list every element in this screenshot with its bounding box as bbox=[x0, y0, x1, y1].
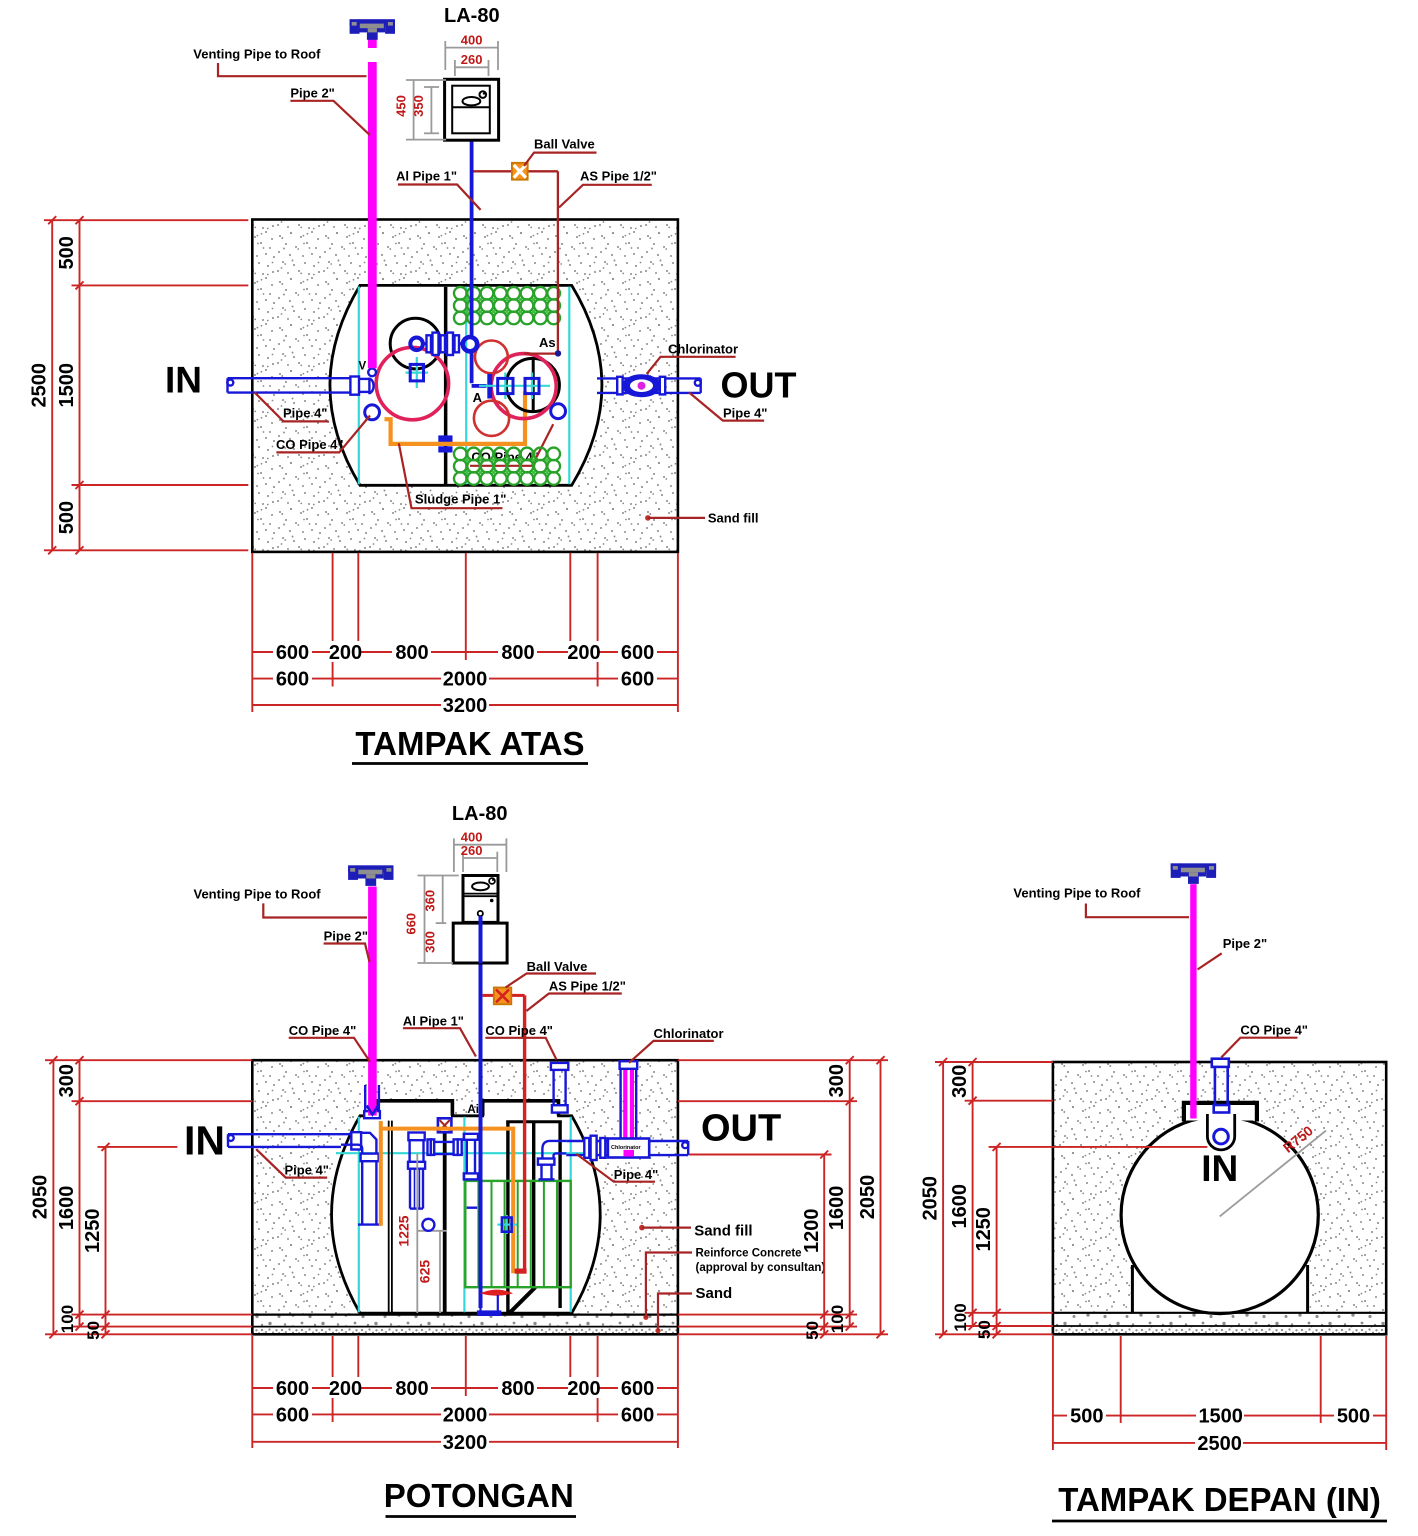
svg-text:300: 300 bbox=[826, 1064, 848, 1097]
bottom dimensions bbox=[252, 553, 678, 712]
sand box front bbox=[1053, 1062, 1386, 1312]
svg-text:Ball Valve: Ball Valve bbox=[527, 959, 588, 974]
svg-text:Pipe 2": Pipe 2" bbox=[1223, 936, 1267, 951]
svg-text:Sand: Sand bbox=[696, 1285, 733, 1302]
black manhole circle right with diameter bbox=[506, 358, 559, 411]
left dimensions bbox=[44, 220, 248, 550]
svg-text:800: 800 bbox=[501, 642, 534, 664]
LA-80 box section bbox=[463, 876, 498, 923]
svg-text:200: 200 bbox=[567, 1378, 600, 1400]
svg-text:100: 100 bbox=[951, 1303, 970, 1331]
svg-text:500: 500 bbox=[1070, 1406, 1103, 1428]
CO pipe circle right bbox=[551, 404, 566, 419]
chamber3 outlet drop bbox=[538, 1141, 566, 1180]
svg-text:2000: 2000 bbox=[443, 1404, 488, 1426]
svg-text:2050: 2050 bbox=[30, 1175, 52, 1220]
right dims section bbox=[678, 1060, 888, 1334]
left dims section bbox=[45, 1060, 252, 1334]
svg-text:Chlorinator: Chlorinator bbox=[668, 342, 738, 357]
svg-text:625: 625 bbox=[417, 1260, 433, 1284]
sludge fitting on divider bbox=[438, 435, 452, 442]
CO pipe front bbox=[1212, 1059, 1229, 1113]
svg-text:400: 400 bbox=[461, 33, 483, 48]
green media section bbox=[465, 1181, 570, 1287]
LA-80 dims bbox=[406, 41, 498, 140]
thin wall chamber1 bbox=[388, 1121, 390, 1313]
svg-text:1250: 1250 bbox=[82, 1209, 104, 1254]
blue square diffuser fittings with cyan crosses bbox=[416, 357, 418, 388]
transfer pipe across divider bbox=[428, 1134, 479, 1180]
svg-text:260: 260 bbox=[461, 52, 483, 67]
svg-text:Ball Valve: Ball Valve bbox=[534, 137, 595, 152]
svg-text:Venting Pipe to Roof: Venting Pipe to Roof bbox=[193, 47, 321, 62]
svg-text:2500: 2500 bbox=[29, 363, 51, 408]
svg-text:3200: 3200 bbox=[443, 1432, 488, 1454]
CO/vent left with magenta pipe bbox=[364, 1085, 366, 1112]
cyan baffle lines bbox=[358, 287, 360, 485]
left dims front bbox=[935, 1062, 1207, 1334]
svg-text:300: 300 bbox=[56, 1064, 78, 1097]
svg-text:360: 360 bbox=[423, 890, 438, 912]
svg-text:600: 600 bbox=[621, 669, 654, 691]
AS pipe red line to As point bbox=[474, 171, 558, 353]
svg-text:LA-80: LA-80 bbox=[444, 5, 500, 27]
svg-text:1500: 1500 bbox=[1198, 1406, 1243, 1428]
svg-text:2500: 2500 bbox=[1197, 1433, 1242, 1455]
svg-text:500: 500 bbox=[56, 236, 78, 269]
svg-text:50: 50 bbox=[975, 1320, 994, 1339]
svg-text:Pipe 4": Pipe 4" bbox=[614, 1167, 658, 1182]
svg-text:600: 600 bbox=[276, 642, 309, 664]
orange sludge pipe bbox=[385, 391, 526, 444]
LA-80 control box bbox=[445, 79, 499, 140]
svg-text:200: 200 bbox=[567, 642, 600, 664]
svg-text:350: 350 bbox=[411, 95, 426, 117]
svg-text:50: 50 bbox=[803, 1321, 822, 1340]
magenta vent pipe bbox=[368, 39, 377, 48]
svg-text:OUT: OUT bbox=[721, 365, 797, 406]
svg-text:600: 600 bbox=[621, 1404, 654, 1426]
svg-text:50: 50 bbox=[84, 1321, 103, 1340]
red circles right chamber bbox=[475, 341, 508, 374]
svg-text:AS Pipe 1/2": AS Pipe 1/2" bbox=[580, 169, 657, 184]
OUT pipe section bbox=[566, 1136, 688, 1160]
svg-text:500: 500 bbox=[1337, 1406, 1370, 1428]
svg-text:CO Pipe 4": CO Pipe 4" bbox=[1240, 1023, 1308, 1038]
CO pipe right section bbox=[551, 1063, 568, 1113]
svg-text:1250: 1250 bbox=[973, 1207, 995, 1252]
chamber walls black bbox=[506, 1122, 509, 1314]
svg-text:Venting Pipe to Roof: Venting Pipe to Roof bbox=[194, 886, 322, 901]
svg-text:Al Pipe 1": Al Pipe 1" bbox=[396, 169, 457, 184]
svg-text:Chlorinator: Chlorinator bbox=[611, 1145, 641, 1151]
svg-text:600: 600 bbox=[621, 1378, 654, 1400]
green media block top bbox=[454, 287, 560, 324]
svg-text:800: 800 bbox=[395, 642, 428, 664]
tank body bbox=[330, 285, 602, 485]
svg-text:600: 600 bbox=[276, 1404, 309, 1426]
OUT pipe with chlorinator bbox=[597, 377, 701, 395]
svg-text:100: 100 bbox=[58, 1305, 77, 1333]
sand box bbox=[252, 1060, 678, 1314]
svg-text:CO Pipe 4": CO Pipe 4" bbox=[485, 1023, 553, 1038]
magenta vent pipe front bbox=[1190, 884, 1196, 1118]
svg-text:Pipe 4": Pipe 4" bbox=[723, 406, 767, 421]
svg-text:OUT: OUT bbox=[701, 1108, 781, 1150]
LA-80 dims section bbox=[418, 838, 507, 963]
blue square with cyan cross in media bbox=[497, 1223, 516, 1225]
AS red pipe section bbox=[523, 995, 526, 1272]
svg-text:Chlorinator: Chlorinator bbox=[654, 1026, 724, 1041]
svg-text:2000: 2000 bbox=[443, 669, 488, 691]
Al pipe vertical into tank bbox=[470, 140, 474, 337]
svg-text:POTONGAN: POTONGAN bbox=[384, 1477, 574, 1514]
svg-text:1200: 1200 bbox=[801, 1209, 823, 1254]
svg-text:800: 800 bbox=[501, 1378, 534, 1400]
svg-text:2050: 2050 bbox=[919, 1176, 941, 1221]
green media block bottom bbox=[454, 448, 560, 485]
bottom dims front bbox=[1053, 1336, 1386, 1450]
svg-text:Sludge Pipe 1": Sludge Pipe 1" bbox=[415, 492, 506, 507]
support walls bbox=[1131, 1265, 1134, 1313]
crimson circle left bbox=[376, 347, 448, 419]
svg-text:Sand fill: Sand fill bbox=[708, 511, 759, 526]
svg-text:TAMPAK ATAS: TAMPAK ATAS bbox=[355, 725, 584, 762]
svg-text:200: 200 bbox=[329, 1378, 362, 1400]
svg-text:1500: 1500 bbox=[56, 363, 78, 408]
svg-text:CO Pipe 4": CO Pipe 4" bbox=[289, 1023, 357, 1038]
transfer pipe assembly upper bbox=[410, 333, 477, 355]
concrete strip bbox=[252, 1315, 678, 1327]
svg-text:(approval by consultan): (approval by consultan) bbox=[696, 1262, 826, 1274]
svg-text:A: A bbox=[473, 390, 483, 405]
svg-text:Al Pipe 1": Al Pipe 1" bbox=[403, 1013, 464, 1028]
box lines front bbox=[1053, 1062, 1386, 1334]
svg-text:660: 660 bbox=[403, 913, 418, 935]
R750 radius line bbox=[1220, 1131, 1326, 1217]
ball valve section bbox=[494, 988, 512, 1005]
svg-text:As: As bbox=[539, 335, 556, 350]
Al pipe vertical thick bbox=[479, 963, 483, 1308]
tank section body bbox=[332, 1101, 601, 1313]
svg-text:V: V bbox=[359, 361, 367, 373]
sand strip bbox=[252, 1327, 678, 1335]
svg-text:800: 800 bbox=[395, 1378, 428, 1400]
IN pipe section bbox=[228, 1132, 381, 1224]
svg-text:3200: 3200 bbox=[443, 695, 488, 717]
svg-text:1600: 1600 bbox=[56, 1186, 78, 1231]
svg-text:600: 600 bbox=[276, 1378, 309, 1400]
svg-text:300: 300 bbox=[423, 931, 438, 953]
svg-text:600: 600 bbox=[276, 669, 309, 691]
svg-text:300: 300 bbox=[949, 1065, 971, 1098]
transfer standpipe chamber1 bbox=[408, 1133, 425, 1209]
center baffle bbox=[443, 1119, 447, 1315]
chlorinator section bbox=[623, 1070, 634, 1139]
svg-text:IN: IN bbox=[184, 1118, 225, 1164]
svg-text:1600: 1600 bbox=[949, 1184, 971, 1229]
diffuser at bottom bbox=[480, 1290, 513, 1296]
tank circle bbox=[1121, 1116, 1318, 1313]
black manhole circle left bbox=[390, 318, 441, 369]
clevis fitting bbox=[1207, 1114, 1234, 1150]
svg-text:AS Pipe 1/2": AS Pipe 1/2" bbox=[549, 979, 626, 994]
small circle chamber1 bbox=[422, 1219, 434, 1231]
svg-text:500: 500 bbox=[56, 501, 78, 534]
1225 / 625 measure lines bbox=[416, 1153, 418, 1313]
IN pipe bbox=[227, 377, 373, 395]
svg-text:Venting Pipe to Roof: Venting Pipe to Roof bbox=[1013, 886, 1141, 901]
svg-text:600: 600 bbox=[621, 642, 654, 664]
CO pipe circle left bbox=[365, 405, 380, 420]
small vent circle V bbox=[368, 368, 376, 376]
svg-text:Pipe 4": Pipe 4" bbox=[285, 1163, 329, 1178]
svg-text:TAMPAK DEPAN (IN): TAMPAK DEPAN (IN) bbox=[1058, 1481, 1381, 1518]
crimson circle right bbox=[491, 354, 556, 419]
bottom dims section bbox=[252, 1336, 678, 1448]
fitting on baffle top bbox=[438, 1118, 452, 1132]
svg-text:IN: IN bbox=[165, 360, 202, 401]
svg-text:200: 200 bbox=[329, 642, 362, 664]
svg-text:1225: 1225 bbox=[396, 1215, 412, 1246]
svg-text:Pipe 4": Pipe 4" bbox=[283, 406, 327, 421]
cyan baffles bbox=[358, 1117, 360, 1312]
svg-text:Ai: Ai bbox=[467, 1104, 479, 1116]
sand fill box bbox=[252, 220, 678, 552]
orange pipe section bbox=[381, 1121, 519, 1271]
svg-text:LA-80: LA-80 bbox=[452, 803, 508, 825]
svg-text:IN: IN bbox=[1201, 1148, 1238, 1189]
manhole collar bbox=[1186, 1104, 1255, 1121]
svg-text:Reinforce Concrete: Reinforce Concrete bbox=[696, 1248, 802, 1260]
svg-text:2050: 2050 bbox=[857, 1175, 879, 1220]
ball valve bbox=[512, 163, 528, 180]
water level cyan bbox=[336, 1152, 597, 1154]
svg-text:CO Pipe 4": CO Pipe 4" bbox=[276, 437, 344, 452]
center divider wall bbox=[444, 287, 448, 485]
svg-text:1600: 1600 bbox=[826, 1186, 848, 1231]
svg-text:Sand fill: Sand fill bbox=[694, 1222, 752, 1239]
svg-text:450: 450 bbox=[394, 95, 409, 117]
svg-text:260: 260 bbox=[461, 843, 483, 858]
svg-text:Pipe 2": Pipe 2" bbox=[324, 928, 368, 943]
svg-text:100: 100 bbox=[828, 1305, 847, 1333]
svg-text:Pipe 2": Pipe 2" bbox=[290, 86, 334, 101]
